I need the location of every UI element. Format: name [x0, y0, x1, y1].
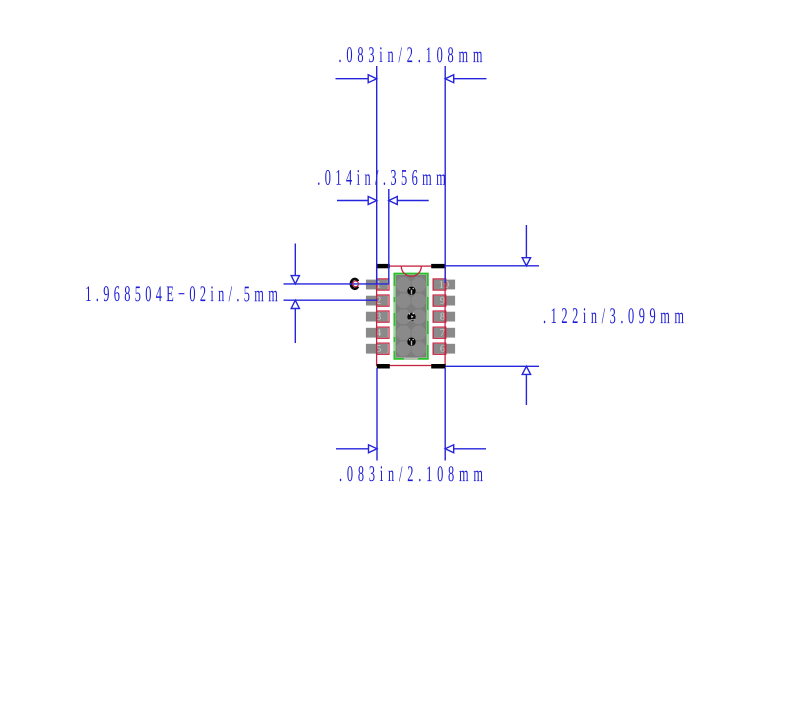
pad 7: [433, 327, 455, 339]
body cell row 4: [396, 326, 410, 341]
extension line x=445.2 bottom: [444, 368, 446, 461]
dimension line top horizontal left with arrow: [336, 66, 487, 284]
pad 3: [366, 311, 389, 323]
svg-text:6: 6: [440, 344, 445, 355]
green edge light segments right: [427, 286, 429, 345]
pad 2: [366, 295, 389, 307]
svg-text:7: 7: [440, 328, 445, 339]
pad 6: [433, 343, 455, 355]
dimension text right .122in/3.099mm: [543, 303, 684, 328]
extension line x=445.2 top: [444, 66, 446, 283]
extension line x=377 bottom: [376, 368, 378, 461]
tick bottom-right: [431, 364, 445, 369]
via marker top: [407, 287, 415, 295]
svg-text:.083in/2.108mm: .083in/2.108mm: [338, 42, 482, 67]
svg-text:10: 10: [439, 280, 450, 291]
pad 1: [366, 279, 389, 291]
pin 1 marker red circle: [353, 281, 359, 287]
pin 1 marker black C: [351, 279, 358, 289]
body cell row 5: [396, 342, 410, 357]
tick top-left: [377, 264, 390, 268]
via marker bottom: [407, 338, 415, 346]
pad 9: [433, 295, 455, 307]
dimension text left 1.968504E-02in/.5mm: [85, 281, 278, 306]
tick bottom-left: [377, 364, 390, 369]
pad 4: [366, 327, 389, 339]
body cell row 1: [396, 277, 410, 292]
dimension lines right .122: [446, 225, 539, 405]
dimension text .014in/.356mm: [317, 165, 445, 190]
dimension line .014 arrows: [337, 189, 429, 284]
dimension lines bottom .083: [336, 368, 486, 461]
svg-text:1.968504E−02in/.5mm: 1.968504E−02in/.5mm: [85, 281, 278, 306]
pad 5: [366, 343, 389, 355]
tick top-right: [431, 264, 445, 268]
courtyard outline: [377, 266, 446, 365]
dimension lines left .5mm: [284, 244, 389, 344]
svg-text:8: 8: [440, 312, 445, 323]
dimension line top horizontal right with arrow: [454, 78, 487, 80]
via marker middle: [407, 313, 415, 321]
dimension text top .083in/2.108mm: [338, 42, 482, 67]
body cell row 2: [396, 293, 410, 308]
vertical arrow line above: [294, 244, 296, 276]
bottom edge light segment: [404, 358, 418, 360]
vertical arrow line below: [294, 309, 296, 344]
extension line x=388.8: [388, 189, 390, 284]
extension line bottom: [446, 365, 539, 367]
extension line pad1 center: [284, 283, 389, 285]
body cell row 3: [396, 309, 410, 324]
extension line pad2 center: [284, 299, 378, 301]
extension line top: [446, 265, 539, 267]
pad 8: [433, 311, 455, 323]
package body outline (green): [394, 274, 427, 359]
svg-text:.122in/3.099mm: .122in/3.099mm: [543, 303, 684, 328]
svg-text:9: 9: [440, 296, 445, 307]
svg-text:.083in/2.108mm: .083in/2.108mm: [339, 461, 483, 486]
dimension text bottom .083in/2.108mm: [339, 461, 483, 486]
vertical arrow line top: [525, 225, 527, 258]
pad 10: [433, 279, 455, 291]
extension line x=376.7 top: [376, 66, 378, 284]
package body fill: [396, 275, 427, 358]
green edge light segments left: [394, 286, 396, 351]
pin 1 indicator arc: [401, 266, 421, 276]
vertical arrow line bottom: [525, 374, 527, 405]
